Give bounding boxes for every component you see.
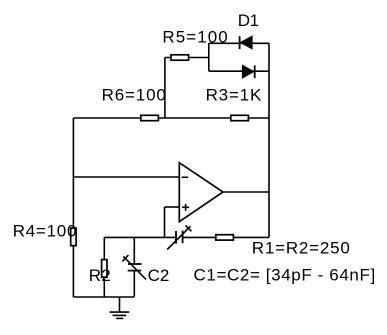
svg-text:R3=1K: R3=1K xyxy=(206,85,263,104)
svg-text:C2: C2 xyxy=(148,266,170,285)
svg-text:R6=100: R6=100 xyxy=(102,85,167,104)
svg-text:R2: R2 xyxy=(89,266,111,285)
svg-text:R4=100: R4=100 xyxy=(13,221,77,240)
svg-text:R5=100: R5=100 xyxy=(162,27,228,46)
svg-text:R1=R2=250: R1=R2=250 xyxy=(252,238,351,257)
svg-text:C1=C2= [34pF - 64nF]: C1=C2= [34pF - 64nF] xyxy=(194,265,376,284)
svg-text:D1: D1 xyxy=(238,11,259,30)
